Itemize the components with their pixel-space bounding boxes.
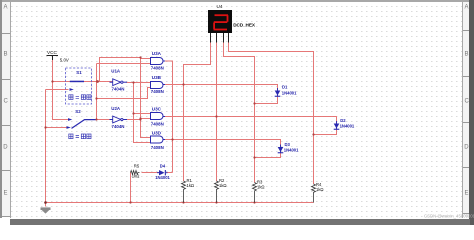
svg-text:1N4001: 1N4001 <box>284 147 299 152</box>
svg-text:S1: S1 <box>76 70 82 75</box>
svg-text:D4: D4 <box>160 164 166 169</box>
svg-text:D3: D3 <box>285 142 291 147</box>
svg-text:1kΩ: 1kΩ <box>257 184 265 189</box>
svg-text:7408N: 7408N <box>151 89 164 94</box>
svg-text:5.0V: 5.0V <box>60 57 69 62</box>
svg-text:C: C <box>4 99 9 105</box>
svg-text:U3D: U3D <box>152 130 162 135</box>
svg-text:1kΩ: 1kΩ <box>187 183 195 188</box>
svg-text:7408N: 7408N <box>151 66 164 71</box>
svg-text:VCC: VCC <box>47 50 58 55</box>
svg-text:U3A: U3A <box>152 51 162 56</box>
svg-text:DCD_HEX: DCD_HEX <box>233 23 256 28</box>
svg-text:U3B: U3B <box>152 75 162 80</box>
svg-text:S2: S2 <box>75 109 81 114</box>
svg-text:B: B <box>4 52 8 58</box>
svg-text:R5: R5 <box>134 164 140 169</box>
svg-text:U1A: U1A <box>111 69 121 74</box>
svg-text:E: E <box>465 191 469 197</box>
svg-text:D: D <box>464 145 469 151</box>
svg-text:7408N: 7408N <box>151 145 164 150</box>
svg-text:CSDN @weixin_45909209: CSDN @weixin_45909209 <box>424 214 474 219</box>
svg-text:D: D <box>3 145 8 151</box>
svg-text:7404N: 7404N <box>112 124 125 129</box>
svg-text:7404N: 7404N <box>112 86 125 91</box>
svg-text:1N4001: 1N4001 <box>340 124 355 129</box>
svg-text:1kΩ: 1kΩ <box>219 183 227 188</box>
svg-text:U4: U4 <box>217 4 223 9</box>
svg-text:D1: D1 <box>282 85 288 90</box>
svg-text:1N4001: 1N4001 <box>155 175 170 180</box>
svg-text:C: C <box>465 99 470 105</box>
svg-text:D2: D2 <box>340 118 346 123</box>
svg-text:1kΩ: 1kΩ <box>132 174 140 179</box>
svg-text:U2A: U2A <box>111 106 121 111</box>
svg-text:7408N: 7408N <box>151 122 164 127</box>
svg-text:1kΩ: 1kΩ <box>316 187 324 192</box>
svg-text:1N4001: 1N4001 <box>282 90 297 95</box>
svg-text:A: A <box>465 5 469 11</box>
svg-text:E: E <box>4 191 8 197</box>
svg-text:B: B <box>465 52 469 58</box>
svg-text:U3C: U3C <box>152 106 162 111</box>
svg-text:A: A <box>4 5 8 11</box>
